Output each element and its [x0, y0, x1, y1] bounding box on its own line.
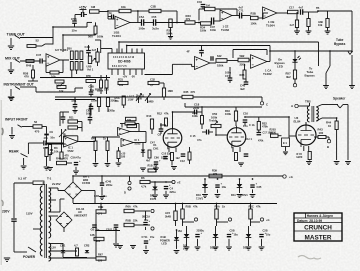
svg-text:C9: C9: [50, 130, 54, 134]
resistor bank R55b: [80, 62, 83, 71]
resistor R3C: [127, 124, 137, 127]
ground: [73, 171, 79, 174]
ground: [163, 195, 169, 198]
svg-text:100n: 100n: [139, 27, 146, 31]
wire: [107, 107, 109, 113]
svg-text:47k: 47k: [115, 100, 120, 103]
title block frame: [294, 213, 342, 241]
wire: [49, 257, 97, 259]
svg-text:CRUNCH: CRUNCH: [304, 224, 332, 231]
terminal G bus end: [283, 175, 286, 178]
tube V1 triode: [163, 129, 182, 148]
ground: [140, 168, 146, 171]
wire: [144, 22, 154, 24]
svg-text:13B: 13B: [90, 234, 95, 237]
svg-text:47k: 47k: [133, 205, 138, 209]
ground: [8, 70, 14, 73]
capacitor C35: [212, 18, 214, 25]
wire: [309, 160, 311, 161]
cathode network V3: [303, 146, 305, 151]
speaker jack: [337, 105, 340, 109]
svg-text:C4B: C4B: [85, 45, 90, 49]
resistor R41 7k: [243, 70, 246, 79]
op-amp U5A TL064: [115, 16, 130, 29]
svg-text:3k4B: 3k4B: [165, 215, 171, 218]
wire bus2: [55, 99, 95, 101]
svg-text:Datum: 28.10.99: Datum: 28.10.99: [297, 219, 322, 223]
IC pin wires bottom: [111, 69, 113, 75]
op-amp IC1b: [121, 139, 134, 147]
svg-text:4k7: 4k7: [146, 159, 151, 163]
wire: [62, 35, 64, 52]
svg-text:180: 180: [96, 240, 101, 243]
svg-text:R3B: R3B: [251, 12, 256, 16]
svg-text:270: 270: [191, 90, 196, 94]
svg-text:R55: R55: [86, 74, 91, 78]
svg-text:4u7: 4u7: [92, 48, 97, 52]
ground: [72, 111, 77, 114]
wire: [40, 77, 110, 79]
svg-text:CB11 15u: CB11 15u: [106, 229, 118, 232]
wire: [92, 136, 120, 138]
pot arrow input net: [59, 130, 66, 138]
resistor R21: [235, 153, 238, 161]
zener D11 100V1: [237, 184, 243, 188]
svg-text:10p: 10p: [90, 88, 95, 92]
ground: [294, 31, 300, 34]
smudge: [298, 256, 321, 260]
svg-text:UMGEKRT: UMGEKRT: [74, 213, 88, 217]
resistor R9: [126, 117, 137, 120]
wire: [42, 60, 46, 62]
svg-text:4n7: 4n7: [299, 6, 304, 10]
feedback wire U7B: [233, 49, 267, 51]
capacitor C42 220u: [164, 187, 168, 189]
ground: [4, 258, 10, 261]
svg-text:R5A: R5A: [215, 205, 220, 209]
ground: [334, 162, 340, 165]
svg-text:47n: 47n: [44, 136, 49, 140]
capacitor C17 10n: [257, 133, 262, 135]
svg-text:100n: 100n: [210, 28, 216, 32]
wire: [134, 224, 150, 226]
ground: [237, 195, 243, 198]
capacitor C6 top: [89, 107, 94, 109]
resistor R49 4k7: [148, 150, 151, 158]
svg-text:T-1: T-1: [47, 177, 52, 181]
wire: [258, 17, 263, 19]
svg-text:15A: 15A: [178, 230, 183, 233]
capacitor C20: [244, 154, 249, 156]
capacitor C7: [88, 118, 93, 120]
wire: [242, 15, 251, 17]
wire coupling: [245, 116, 289, 118]
svg-text:15n: 15n: [72, 29, 77, 33]
grid wire: [278, 135, 282, 137]
svg-text:C?11: C?11: [142, 236, 149, 239]
control line 2: [127, 45, 270, 47]
ground: [130, 246, 136, 249]
svg-text:4u?: 4u?: [290, 23, 295, 27]
wire: [277, 12, 288, 14]
diode D1: [141, 150, 145, 153]
resistor R57b: [105, 80, 108, 88]
wire: [195, 22, 200, 24]
svg-text:R28: R28: [95, 88, 100, 92]
wire: [156, 22, 185, 24]
svg-text:R5B: R5B: [126, 219, 131, 223]
ground: [47, 168, 53, 171]
svg-text:B: B: [327, 145, 329, 149]
capacitor mains: [11, 219, 16, 221]
svg-text:15n: 15n: [243, 124, 248, 128]
ground: [246, 247, 252, 250]
resistor R53 180: [55, 80, 64, 83]
capacitor C47: [40, 59, 42, 64]
ground: [306, 31, 312, 34]
svg-text:3u3n: 3u3n: [152, 27, 159, 31]
svg-text:R35: R35: [184, 90, 189, 94]
svg-text:220u: 220u: [170, 190, 176, 194]
svg-text:10n: 10n: [50, 136, 55, 140]
transformer TR2 secondary: [316, 107, 318, 121]
wire IC pin feed: [100, 40, 102, 53]
wire: [98, 107, 100, 113]
svg-text:150k: 150k: [251, 22, 257, 26]
wire mains: [14, 182, 33, 184]
wire: [145, 211, 147, 220]
IC U2 DD4066: [108, 53, 145, 69]
terminal C: [261, 97, 263, 101]
svg-text:7,5V1: 7,5V1: [196, 196, 204, 200]
resistor R19 100k: [201, 116, 204, 125]
feedback resistor 33k: [125, 122, 135, 125]
ground: [171, 167, 177, 170]
wire: [214, 20, 220, 22]
svg-text:Speaker: Speaker: [333, 97, 346, 101]
svg-text:R31: R31: [118, 78, 123, 82]
terminal: [151, 209, 154, 212]
svg-text:Bypass: Bypass: [334, 42, 346, 46]
wire: [232, 15, 240, 17]
ground: [143, 251, 149, 254]
svg-text:10k: 10k: [121, 5, 126, 9]
ground: [44, 167, 50, 170]
svg-text:+G: +G: [289, 175, 293, 179]
IC pin wires top: [111, 49, 113, 54]
wire heater rows: [49, 243, 64, 245]
capacitor C1x: [211, 56, 213, 61]
svg-text:52: 52: [34, 120, 38, 124]
wire: [267, 61, 270, 63]
svg-text:4,7: 4,7: [74, 244, 78, 248]
svg-text:1k: 1k: [222, 205, 225, 209]
capacitor C43 100u: [215, 185, 219, 187]
junction dots: [52, 26, 54, 28]
wire: [185, 106, 262, 108]
resistor R13c: [171, 153, 174, 161]
resistor R11: [68, 120, 78, 123]
transformer TR2 primary: [307, 106, 309, 122]
svg-text:Hannes & Jürgen: Hannes & Jürgen: [307, 214, 333, 218]
svg-text:230V: 230V: [2, 210, 10, 214]
svg-text:CH 1: CH 1: [246, 137, 253, 141]
svg-text:100k: 100k: [97, 35, 104, 39]
svg-text:C47: C47: [36, 53, 42, 57]
ground: [113, 244, 119, 247]
cathode network V1: [168, 148, 170, 153]
wire bus y97 right: [193, 96, 262, 98]
svg-text:C32: C32: [150, 78, 155, 82]
title block row1: [294, 217, 342, 219]
potentiometer P54 10k: [57, 86, 66, 89]
svg-text:C12: C12: [180, 159, 185, 163]
wire: [49, 187, 59, 189]
wire: [155, 166, 157, 168]
svg-text:150k: 150k: [200, 29, 207, 33]
ground: [9, 98, 15, 101]
ground: [238, 163, 244, 166]
svg-text:47k: 47k: [193, 205, 198, 209]
svg-text:642: 642: [217, 54, 222, 58]
wire: [42, 126, 47, 128]
svg-text:POWER: POWER: [23, 255, 36, 259]
wire: [45, 143, 66, 145]
svg-text:22k: 22k: [133, 219, 138, 223]
svg-text:4n7: 4n7: [239, 6, 244, 10]
op-amp IC1 5532: [64, 136, 79, 147]
wire anode: [305, 122, 307, 125]
svg-text:R5C: R5C: [249, 205, 254, 209]
svg-text:C4?: C4?: [150, 141, 155, 145]
svg-text:270: 270: [213, 173, 218, 176]
svg-text:CH1: CH1: [153, 147, 159, 151]
svg-text:4,7k: 4,7k: [141, 185, 147, 189]
wire: [86, 22, 88, 27]
svg-text:+E: +E: [177, 181, 181, 185]
svg-text:560k: 560k: [167, 32, 173, 36]
wire: [130, 22, 141, 24]
transformer T1 secondary 2: [49, 216, 51, 238]
resistor R35 1M8: [162, 88, 165, 97]
svg-text:INPUT FRONT: INPUT FRONT: [5, 118, 29, 122]
wire bus y97: [55, 96, 182, 98]
wire: [61, 129, 63, 144]
svg-text:D11: D11: [231, 193, 236, 197]
resistor R34 150k: [201, 22, 212, 25]
svg-text:R48: R48: [26, 64, 32, 68]
cathode network V2: [232, 147, 234, 152]
svg-text:INSTRUMENT OUT: INSTRUMENT OUT: [4, 83, 35, 87]
svg-text:5532: 5532: [135, 141, 141, 145]
svg-text:220u: 220u: [106, 183, 113, 187]
wire: [67, 162, 73, 164]
svg-text:C25: C25: [257, 185, 262, 189]
ground: [93, 164, 99, 167]
svg-text:C1500: C1500: [82, 181, 91, 185]
ground: [117, 246, 123, 249]
wire: [20, 60, 40, 62]
svg-text:R11: R11: [69, 116, 74, 120]
svg-text:10u: 10u: [234, 234, 239, 237]
svg-text:15V1: 15V1: [150, 197, 157, 201]
resistor bank R54: [75, 62, 78, 71]
wire: [298, 105, 310, 107]
svg-text:R67: R67: [98, 253, 103, 257]
resistor R48: [26, 60, 34, 63]
svg-text:470: 470: [24, 75, 29, 79]
svg-text:1/1W: 1/1W: [136, 98, 142, 101]
resistor R64 180: [94, 237, 104, 240]
svg-text:5B2: 5B2: [240, 54, 245, 58]
terminal B: [328, 137, 330, 140]
wire: [49, 215, 59, 217]
label E-1 box: [282, 138, 290, 147]
svg-text:k220: k220: [297, 155, 303, 159]
svg-text:220u: 220u: [161, 156, 167, 160]
svg-text:100k: 100k: [192, 114, 198, 118]
wire: [60, 59, 69, 61]
LED D15 on-bypass: [294, 51, 296, 59]
potentiometer gain 1: [136, 94, 142, 102]
svg-text:5532: 5532: [68, 149, 74, 153]
svg-text:1/1W: 1/1W: [128, 99, 134, 102]
svg-text:470: 470: [35, 129, 40, 133]
ground: [168, 37, 173, 40]
svg-text:1M: 1M: [91, 5, 96, 9]
resistor R10 1M: [150, 119, 153, 129]
resistor R41 10k: [326, 19, 329, 28]
terminal F2: [217, 221, 229, 223]
svg-text:+15V: +15V: [79, 6, 87, 10]
jack J4 INPUT FRONT: [11, 127, 13, 135]
svg-text:15u: 15u: [150, 236, 155, 239]
svg-text:1M00: 1M00: [147, 100, 154, 104]
ground: [323, 86, 329, 89]
svg-text:C4?: C4?: [225, 74, 230, 78]
wire: [160, 124, 166, 126]
ground: [202, 195, 208, 198]
svg-text:-5V: -5V: [131, 75, 135, 79]
jack J2 MIX OUT: [10, 62, 12, 69]
ground: [215, 195, 221, 198]
svg-text:47n: 47n: [197, 138, 202, 142]
resistor R56 180k: [100, 80, 103, 88]
resistor R29 560k: [169, 19, 172, 28]
terminal E2: [183, 221, 195, 223]
terminal E1: [172, 180, 175, 183]
op-amp U5B TL064: [263, 7, 278, 19]
svg-text:R50: R50: [67, 48, 72, 51]
svg-text:DD 4066: DD 4066: [118, 60, 131, 64]
svg-text:R13: R13: [147, 114, 152, 118]
svg-text:LED: LED: [162, 242, 167, 246]
svg-text:EL84: EL84: [294, 120, 301, 124]
svg-text:TL064: TL064: [112, 34, 121, 38]
wire 115V tap: [33, 228, 41, 230]
svg-text:R12: R12: [157, 112, 162, 116]
resistor bank R53b: [70, 62, 73, 71]
svg-text:220: 220: [98, 260, 103, 263]
op-amp U7A: [195, 57, 211, 70]
resistor R30 220k: [106, 98, 109, 107]
svg-text:R6: R6: [141, 176, 145, 180]
ground: [345, 162, 351, 165]
resistor R40b: [307, 19, 310, 27]
feedback resistor R51 10k: [50, 71, 59, 74]
resistor R15: [188, 152, 191, 160]
svg-text:8 6 1 10 7 2 5: 8 6 1 10 7 2 5: [112, 65, 127, 68]
svg-text:220k: 220k: [240, 63, 246, 67]
svg-text:47k: 47k: [256, 205, 261, 209]
wire: [71, 70, 73, 78]
terminal: [294, 79, 296, 84]
transformer T1 core: [44, 184, 46, 258]
svg-text:10u: 10u: [222, 185, 227, 189]
feedback resistor R36: [205, 7, 216, 10]
svg-text:TR2: TR2: [305, 100, 311, 104]
svg-text:180: 180: [121, 156, 126, 159]
terminal G2: [251, 221, 261, 223]
wire: [27, 143, 29, 154]
svg-text:C3B: C3B: [151, 5, 156, 9]
op-amp IC1a: [118, 128, 131, 136]
svg-text:R4B: R4B: [56, 157, 61, 161]
svg-text:470: 470: [64, 157, 69, 161]
svg-text:52: 52: [36, 39, 40, 43]
transformer T1 primary: [40, 186, 42, 256]
ground: [152, 195, 158, 198]
switch S2: [329, 51, 331, 66]
ground: [153, 168, 159, 171]
svg-text:100k: 100k: [225, 112, 231, 116]
svg-text:2x15V: 2x15V: [52, 182, 61, 186]
resistor R57: [96, 52, 99, 62]
wire top rail: [73, 203, 277, 205]
wire: [78, 121, 83, 123]
wire: [118, 147, 120, 151]
svg-text:TL062: TL062: [263, 72, 272, 76]
smudge: [0, 100, 2, 265]
title block CRUNCH: [294, 230, 342, 232]
wire: [20, 37, 53, 39]
svg-text:R38: R38: [240, 73, 245, 77]
ground: [306, 162, 312, 165]
svg-text:10k: 10k: [318, 23, 323, 27]
svg-text:R6A: R6A: [126, 205, 131, 209]
jack J3 INSTRUMENT OUT: [10, 89, 12, 96]
resistor R61 10k: [48, 145, 51, 155]
wire: [150, 181, 172, 183]
svg-text:C1?: C1?: [289, 6, 294, 10]
wire: [99, 11, 108, 13]
svg-text:C70: C70: [98, 213, 103, 216]
svg-text:C55: C55: [152, 15, 157, 19]
title block row2 date: [294, 222, 342, 224]
svg-text:180: 180: [119, 84, 124, 87]
resistor R22 470k: [257, 122, 260, 131]
jack tube bypass: [350, 52, 352, 55]
svg-text:1M8: 1M8: [168, 89, 174, 93]
wire: [46, 142, 64, 144]
wire: [303, 11, 318, 13]
svg-text:+5V: +5V: [123, 75, 128, 79]
svg-text:2200p: 2200p: [108, 110, 115, 113]
svg-text:D: D: [124, 191, 126, 195]
wire: [134, 210, 150, 212]
op-amp U6A TL062: [220, 10, 232, 21]
ground: [349, 86, 355, 89]
